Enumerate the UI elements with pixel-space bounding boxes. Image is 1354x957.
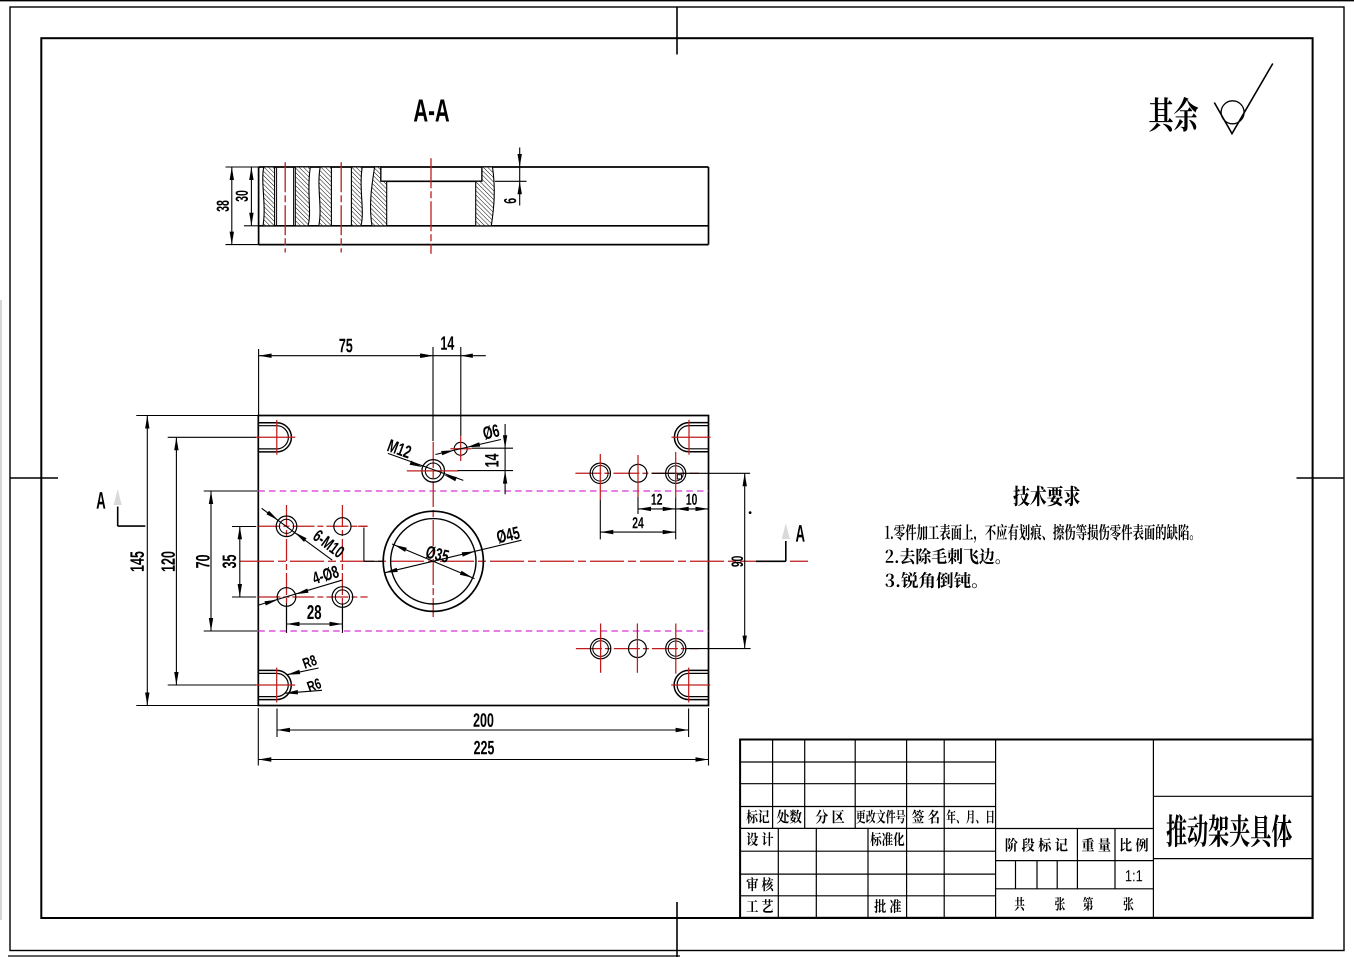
section left edge (258, 167, 260, 245)
hatched wall strip 1 (263, 167, 275, 226)
tech requirement line 2 (886, 548, 1000, 565)
corner slot bottom-left (256, 668, 296, 703)
dim 10 (676, 494, 709, 512)
right top hole A (590, 463, 610, 483)
dim 120 extensions (168, 437, 256, 685)
border tick left center (10, 477, 58, 479)
dim 28 (287, 605, 343, 626)
hole D8 bottom-left (277, 588, 296, 607)
title zone horizontals (1153, 796, 1312, 858)
heading JiShuYaoQiu (1013, 486, 1079, 507)
dim 35 (222, 526, 242, 597)
dim 200 (277, 713, 689, 732)
red column lines bottom row (601, 624, 676, 674)
dim 38 extension bottom (226, 244, 259, 246)
border tick top center (676, 7, 678, 55)
label PiZhun (874, 899, 901, 913)
thread line right of strip 1 (276, 167, 278, 226)
hole M12 red cross (407, 470, 459, 472)
main red centerline horizontal (240, 560, 808, 562)
right top row extension to dim 90 (652, 472, 750, 474)
hole D8 top-right (334, 518, 351, 535)
label GongYi (747, 899, 774, 913)
dim 30 (236, 167, 254, 226)
red column lines top row (600, 452, 675, 500)
section red centerline 2 (340, 162, 342, 252)
central bore circle D35 (391, 519, 476, 604)
hatched wall strip 4 (351, 167, 362, 226)
leader and label R6 (285, 678, 322, 695)
magenta phantom line upper (258, 490, 708, 492)
section pocket left step edge (380, 167, 382, 181)
dim 28 extensions (287, 604, 343, 633)
label Zhang1 (1055, 897, 1065, 911)
hatched wall strip 2 (295, 167, 310, 226)
hole row 6-M10 red centerline (258, 525, 367, 527)
title block row lines (740, 762, 996, 896)
dim 38 (217, 167, 234, 245)
label BiaoJi (746, 810, 769, 824)
page top edge scan line (0, 0, 1354, 2)
hole column red centerline B (341, 505, 343, 633)
corner slot top-left R8/R6 (256, 420, 296, 455)
stage zone verticals (1016, 829, 1116, 889)
title block outline (740, 740, 1313, 918)
right bottom hole A (590, 638, 610, 658)
hole M10 bottom-right (332, 587, 353, 608)
dim 120 (161, 437, 178, 685)
page left scan edge (0, 300, 2, 920)
label NianYueRi (946, 809, 993, 823)
leader and label 6-M10 (262, 508, 346, 560)
label QianMing (912, 810, 939, 824)
extension 4-D8 row to edge (232, 596, 256, 598)
hole M12 circles (422, 460, 445, 483)
right bottom hole C (666, 639, 686, 659)
right bottom row extension to dim 90 (687, 648, 751, 650)
leader and label D6 (435, 424, 501, 456)
label BiaoZhunHua (870, 832, 904, 846)
hatched wall strip 3 (319, 167, 332, 226)
leader and label D35 (392, 544, 474, 579)
thread line left of strip 2 (293, 167, 295, 226)
dim 200 extensions (277, 709, 689, 738)
red tick on step line (358, 525, 368, 527)
label Zhang2 (1123, 897, 1133, 911)
label ShenHe (746, 877, 773, 891)
label scale 1:1 (1126, 870, 1142, 881)
hole M10 top-left (276, 516, 297, 537)
label Gong (1015, 897, 1025, 911)
plan outline (258, 416, 708, 706)
dim 145 extensions (136, 416, 258, 706)
label GengGaiWenJianHao (856, 810, 905, 824)
section pocket right step edge (481, 167, 483, 181)
hole D6 red cross (450, 436, 471, 461)
drawing title TuiDongJiaJiaJuTi (1166, 814, 1292, 847)
hole D6 circle (454, 442, 467, 455)
border tick bottom center (676, 902, 678, 957)
dim 12 (638, 494, 676, 512)
surface roughness check symbol (1214, 64, 1273, 134)
label Di (1083, 897, 1093, 911)
stray dot (749, 511, 752, 514)
dim 75 extension right (M12 column) (432, 347, 434, 441)
hole column red centerline A (286, 505, 288, 633)
right bottom hole row red centerline (576, 648, 699, 650)
leader and label D45 (385, 526, 522, 573)
section pocket bottom (depth 6) (381, 180, 483, 182)
hole row 4-D8 red centerline (258, 596, 367, 598)
right top hole C (666, 463, 686, 483)
right bottom hole B (629, 640, 647, 658)
label FenQu (816, 810, 845, 824)
dim 70 extensions (204, 491, 257, 631)
section red centerline 3 (430, 158, 432, 254)
section right edge (708, 167, 710, 245)
dim 14 top (421, 336, 486, 358)
tech requirement line 1 (885, 524, 1193, 543)
dim 145 (130, 416, 149, 706)
section red centerline 1 (284, 162, 286, 252)
dim 38 extension top (226, 166, 259, 168)
dim 225 extensions (258, 708, 708, 766)
hatched pocket right wall strip 6 (476, 167, 495, 226)
dim 70 (196, 491, 213, 631)
dim 14 extension (D6 column) (460, 347, 462, 436)
corner slot bottom-right (671, 668, 710, 703)
black column extensions top row (600, 497, 675, 539)
label SheJi (747, 832, 774, 846)
dim 30 extension bottom (244, 225, 259, 227)
dim 6 (504, 148, 522, 206)
section bottom edge (259, 244, 709, 246)
magenta phantom line lower (258, 630, 708, 632)
small square mark at hole C (677, 475, 681, 479)
corner slot top-right (672, 420, 711, 455)
label JieDuanBiaoJi (1006, 838, 1068, 852)
section top edge (259, 166, 709, 168)
dim 14 vertical extension lower (458, 470, 513, 472)
section marker A right (756, 523, 805, 561)
label BiLi (1120, 838, 1148, 852)
dim 6 extension tick (495, 180, 527, 182)
dim 90 (731, 473, 747, 648)
text QiYu (rest surfaces) (1149, 97, 1198, 132)
label ZhongLiang (1082, 838, 1111, 852)
section mid line (30 depth) (259, 225, 709, 227)
dim 24 (600, 517, 675, 534)
section title A-A (414, 100, 449, 122)
extension 6-M10 row to edge (232, 526, 256, 528)
tech requirement line 3 (886, 572, 977, 589)
dim 14 vertical (485, 424, 507, 494)
page bottom partial scan line (8, 955, 680, 957)
right top hole B (629, 464, 647, 482)
section marker A left (97, 489, 146, 526)
border tick right center (1297, 477, 1345, 479)
title block column lines (773, 740, 1154, 918)
dim 75 (259, 339, 433, 358)
leader and label R8 (287, 654, 319, 674)
leader and label 4-D8 (258, 565, 342, 606)
step extension line to bore (364, 528, 383, 562)
hatched pocket left wall strip 5 (371, 167, 387, 226)
dim 14 vertical extension upper (472, 447, 514, 449)
central bore circle D45 (383, 511, 483, 611)
main red centerline vertical (432, 442, 434, 617)
dim 75 extension left (258, 349, 260, 416)
label ChuShu (777, 810, 802, 824)
stage zone horizontals (996, 829, 1154, 889)
right top hole row red centerline (575, 472, 699, 474)
leader and label M12 (387, 439, 463, 481)
dim 225 (258, 741, 708, 762)
